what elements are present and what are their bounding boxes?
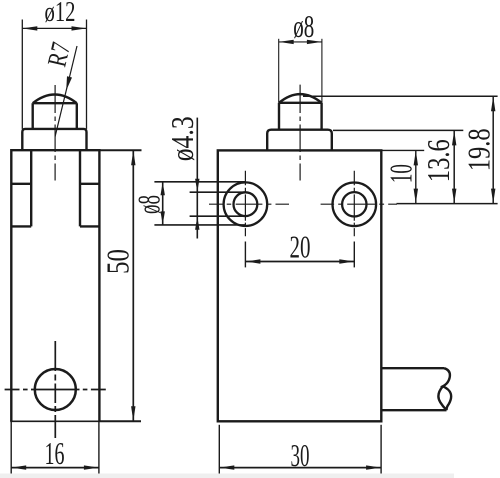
svg-text:19.8: 19.8 (460, 128, 496, 171)
right view: cable break squiggle (438, 368, 451, 410)
right view: right hole inner circle (342, 192, 366, 216)
left view: bottom edge extension to 50-dim (99, 420, 141, 422)
dim 16: left arrowhead (11, 465, 26, 469)
dim o8 top: left extension line (278, 39, 280, 103)
dim o12: right extension line (86, 20, 88, 129)
dim 30: dimension line (219, 467, 381, 469)
dim 30: left extension line (218, 425, 220, 475)
dim lines bottom shared extension line at hole center level (397, 203, 498, 205)
dim o8 hole: bottom arrowhead (161, 211, 165, 225)
dim o12: left arrowhead (22, 26, 37, 30)
dim o4.3: upper arrowhead pointing down (195, 179, 199, 193)
svg-text:ø8: ø8 (293, 8, 314, 44)
dim o8 top: dimension line (279, 41, 322, 43)
left view: step line lower left (11, 225, 31, 227)
dim 30: left arrowhead (219, 465, 234, 469)
dim 20: right extension line (353, 242, 355, 268)
dim o8 top: right arrowhead (307, 40, 322, 44)
left view: step line upper right (80, 183, 99, 185)
svg-text:R7: R7 (41, 39, 76, 69)
left view: mounting hole circle (35, 369, 76, 410)
dim o8 hole: top tangent extension line (154, 181, 245, 183)
dim 16: right extension line (98, 421, 100, 474)
dim 16: right arrowhead (84, 465, 99, 469)
dim 50: dimension line (132, 150, 134, 421)
dim 13.6: top extension line from collar (333, 129, 463, 131)
dim 19.8: top extension line from dome apex (303, 95, 498, 97)
right view: plunger dome arc (279, 94, 322, 103)
dim 19.8: dimension line (492, 96, 494, 203)
left view: plunger dome arc R7 (33, 95, 77, 104)
right view: collar (267, 130, 332, 151)
right view: left hole outer circle (224, 182, 268, 226)
page bottom gray strip (0, 474, 454, 478)
dim o8 top: left arrowhead (279, 40, 294, 44)
svg-text:50: 50 (99, 249, 135, 274)
dim 30: right arrowhead (366, 465, 381, 469)
dim 30: right extension line (380, 425, 382, 475)
left view: plunger centerline (54, 85, 56, 181)
svg-text:13.6: 13.6 (420, 139, 456, 182)
dim R7: leader line (55, 46, 77, 137)
dim 50: bottom arrowhead (131, 406, 135, 421)
dim 20: left arrowhead (245, 259, 260, 263)
dim 10: dimension line (415, 150, 417, 203)
svg-text:ø4.3: ø4.3 (164, 116, 200, 161)
dim 13.6: top arrowhead (452, 130, 456, 145)
dim R7: arrowhead (66, 76, 72, 90)
dim o12: dimension line (22, 27, 86, 29)
right view: right hole outer circle (333, 183, 377, 227)
dim o12: left extension line (21, 20, 23, 129)
left view: body bottom edge (10, 420, 99, 422)
right view: left hole vertical centerline (244, 171, 246, 237)
right view: holes horizontal centerline (209, 203, 397, 205)
right view: plunger right side (320, 103, 322, 130)
dim 10: top extension line (381, 149, 424, 151)
right view: plunger chord line (279, 102, 322, 104)
right view: body outline (218, 150, 381, 421)
dim o4.3: lower arrowhead pointing up (195, 216, 199, 230)
svg-text:ø8: ø8 (130, 195, 166, 214)
svg-text:20: 20 (290, 229, 311, 265)
dim 10: bottom arrowhead (414, 189, 418, 204)
left view: step line upper left (11, 183, 31, 185)
dim o8 hole: bottom tangent extension line (154, 224, 245, 226)
dim 50: top arrowhead (131, 150, 135, 165)
left view: hole horizontal centerline (5, 389, 106, 391)
left view: body outline (11, 150, 99, 421)
left view: hole vertical centerline (54, 341, 56, 438)
dim 19.8: top arrowhead (491, 96, 495, 111)
dim 16: dimension line (11, 467, 99, 469)
dim 20: dimension line (245, 261, 354, 263)
left view: collar (22, 129, 86, 150)
dim 20: left extension line (244, 242, 246, 268)
svg-text:10: 10 (383, 164, 419, 183)
dim o4.3: dimension line (196, 118, 198, 239)
dim 10: top arrowhead (414, 150, 418, 165)
dim 13.6: dimension line (453, 130, 455, 203)
dim 20: right arrowhead (339, 259, 354, 263)
left view: step line lower right (80, 225, 99, 227)
dim o8 hole: top arrowhead (161, 182, 165, 196)
svg-text:16: 16 (45, 435, 65, 471)
left view: plunger left side (32, 103, 34, 129)
dim o12: right arrowhead (72, 26, 87, 30)
left view: inner wall left (30, 150, 32, 226)
right view: cable bottom edge (381, 409, 446, 411)
dim o4.3: bottom tangent extension line (190, 215, 246, 217)
dim 19.8: bottom arrowhead (491, 189, 495, 204)
left view: top edge extension to 50-dim (99, 149, 141, 151)
svg-text:30: 30 (291, 437, 310, 473)
dim o8 hole: dimension line (162, 182, 164, 225)
right view: cable top edge (381, 367, 444, 369)
right view: right hole vertical centerline (353, 171, 355, 237)
right view: left hole inner circle (234, 192, 258, 216)
left view: inner wall right (79, 150, 81, 226)
dim 16: left extension line (10, 421, 12, 474)
right view: plunger centerline (299, 85, 301, 181)
dim o8 top: right extension line (321, 39, 323, 103)
left view: plunger right side (76, 103, 78, 129)
left view: plunger chord line (33, 102, 77, 104)
right view: plunger left side (278, 103, 280, 130)
dim 13.6: bottom arrowhead (452, 189, 456, 204)
dim o4.3: top tangent extension line (190, 191, 246, 193)
svg-text:ø12: ø12 (45, 0, 76, 28)
